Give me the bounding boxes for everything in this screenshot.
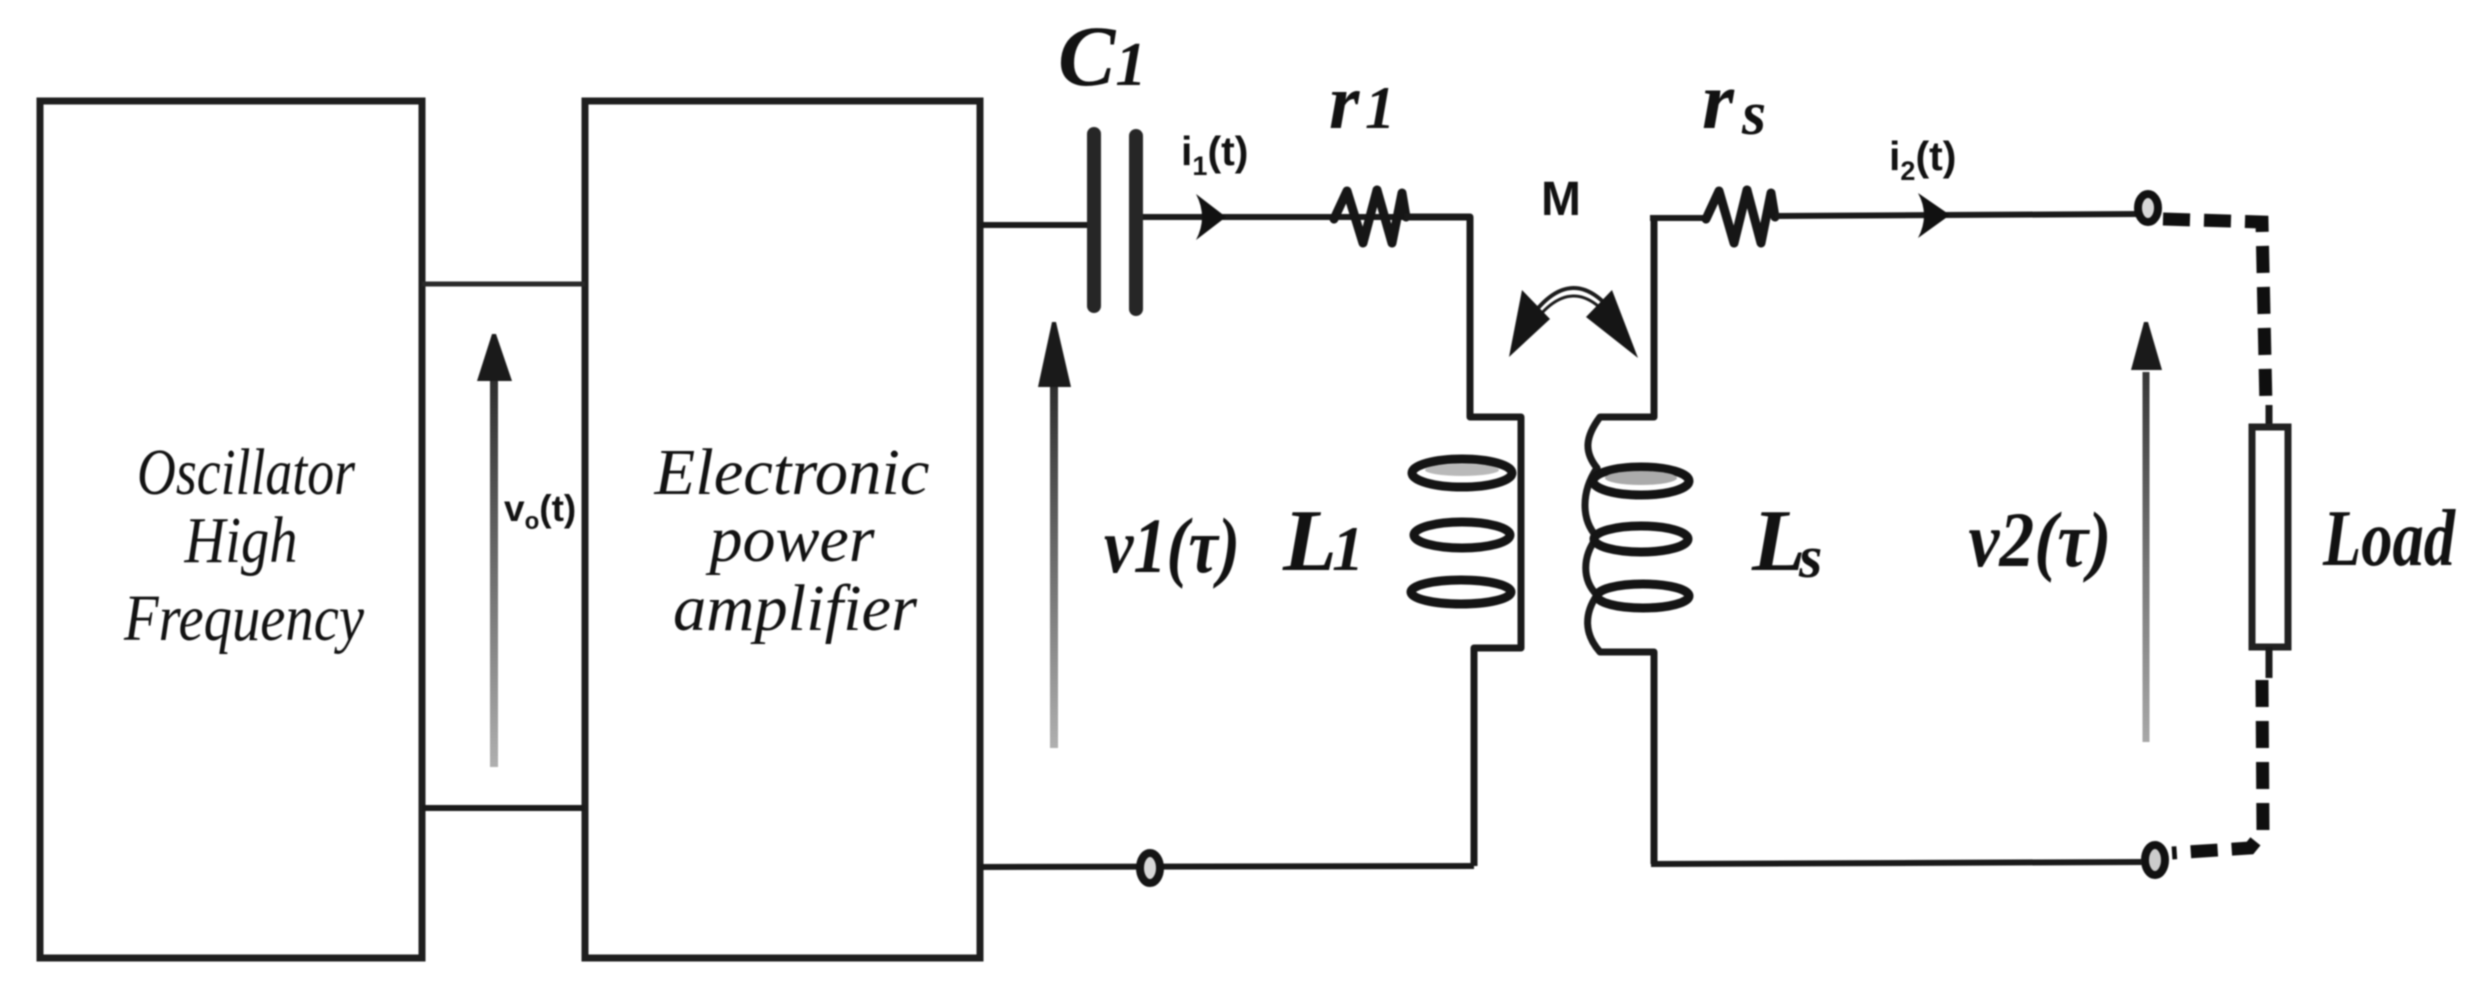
inductor Ls (secondary coil)	[1585, 217, 1689, 864]
wire: top link between boxes	[422, 282, 585, 287]
svg-text:amplifier: amplifier	[673, 572, 917, 645]
svg-text:r: r	[1702, 55, 1735, 146]
svg-text:Load: Load	[2322, 495, 2456, 583]
dashed wire: bottom right	[2172, 680, 2263, 853]
inductor L1 (primary coil)	[1411, 459, 1512, 604]
resistor r1	[1334, 190, 1406, 243]
svg-text:i1(t): i1(t)	[1181, 128, 1248, 181]
wire: bottom link between boxes	[422, 805, 585, 811]
svg-text:High: High	[184, 504, 298, 577]
capacitor C1	[1094, 134, 1136, 309]
svg-text:M: M	[1541, 173, 1581, 226]
svg-text:1: 1	[1332, 513, 1364, 584]
arrow v1	[1038, 322, 1071, 748]
svg-text:i2(t): i2(t)	[1889, 133, 1956, 186]
svg-text:v1(τ): v1(τ)	[1104, 502, 1240, 589]
wire: r1 to L1 top corner	[1405, 217, 1521, 866]
svg-text:s: s	[1798, 524, 1822, 590]
block U1: Oscillator High Frequency box	[40, 101, 422, 958]
svg-text:L: L	[1282, 493, 1337, 590]
mutual coupling arrow M	[1509, 288, 1638, 358]
wire: Ls top to rs	[1650, 215, 1706, 221]
block U2: Electronic power amplifier box	[585, 101, 980, 958]
wire: primary bottom	[980, 866, 1474, 867]
svg-text:r: r	[1329, 58, 1360, 145]
dashed wire: top right	[2163, 219, 2266, 407]
svg-text:vo(t): vo(t)	[504, 488, 576, 535]
terminal: secondary top node	[2138, 194, 2158, 222]
svg-text:power: power	[706, 503, 875, 576]
svg-text:s: s	[1741, 80, 1766, 148]
svg-text:Frequency: Frequency	[123, 582, 364, 655]
wire: secondary bottom	[1651, 862, 2142, 864]
wire with current arrow i2	[1776, 193, 2137, 238]
svg-text:L: L	[1751, 493, 1806, 590]
wire with current arrow i1	[1143, 194, 1468, 240]
load resistor	[2252, 405, 2288, 678]
resistor rs	[1706, 190, 1775, 243]
terminal: secondary bottom node	[2145, 845, 2165, 875]
svg-text:Electronic: Electronic	[653, 436, 929, 509]
terminal: primary bottom node	[1140, 853, 1160, 883]
arrow v2	[2131, 322, 2162, 742]
wire: amplifier to C1	[980, 222, 1090, 228]
arrow v0 (voltage arrow between boxes)	[477, 334, 512, 767]
svg-text:1: 1	[1365, 75, 1395, 141]
svg-text:Oscillator: Oscillator	[137, 436, 355, 509]
svg-text:v2(τ): v2(τ)	[1969, 496, 2112, 583]
